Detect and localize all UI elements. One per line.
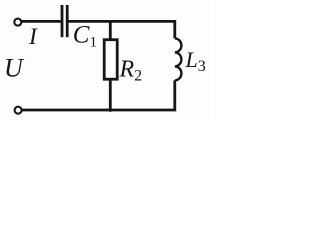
wire top-left segment: [22, 20, 61, 23]
wire inductor bottom lead + bottom wire: [22, 80, 175, 110]
svg-text:I: I: [28, 24, 38, 50]
wire resistor top lead: [109, 21, 112, 39]
wire resistor bottom lead: [109, 79, 112, 110]
terminal bottom-left: [15, 107, 22, 114]
inductor L3 coil (3 arcs): [175, 38, 182, 80]
capacitor C1 left plate: [61, 5, 64, 37]
wire top-right segment with corner down to inductor: [68, 21, 174, 38]
resistor R2 body: [104, 40, 117, 79]
terminal top-left: [14, 19, 21, 26]
svg-text:U: U: [4, 53, 25, 82]
junction resistor/bottom wire: [108, 108, 112, 112]
capacitor C1 right plate: [66, 5, 69, 37]
